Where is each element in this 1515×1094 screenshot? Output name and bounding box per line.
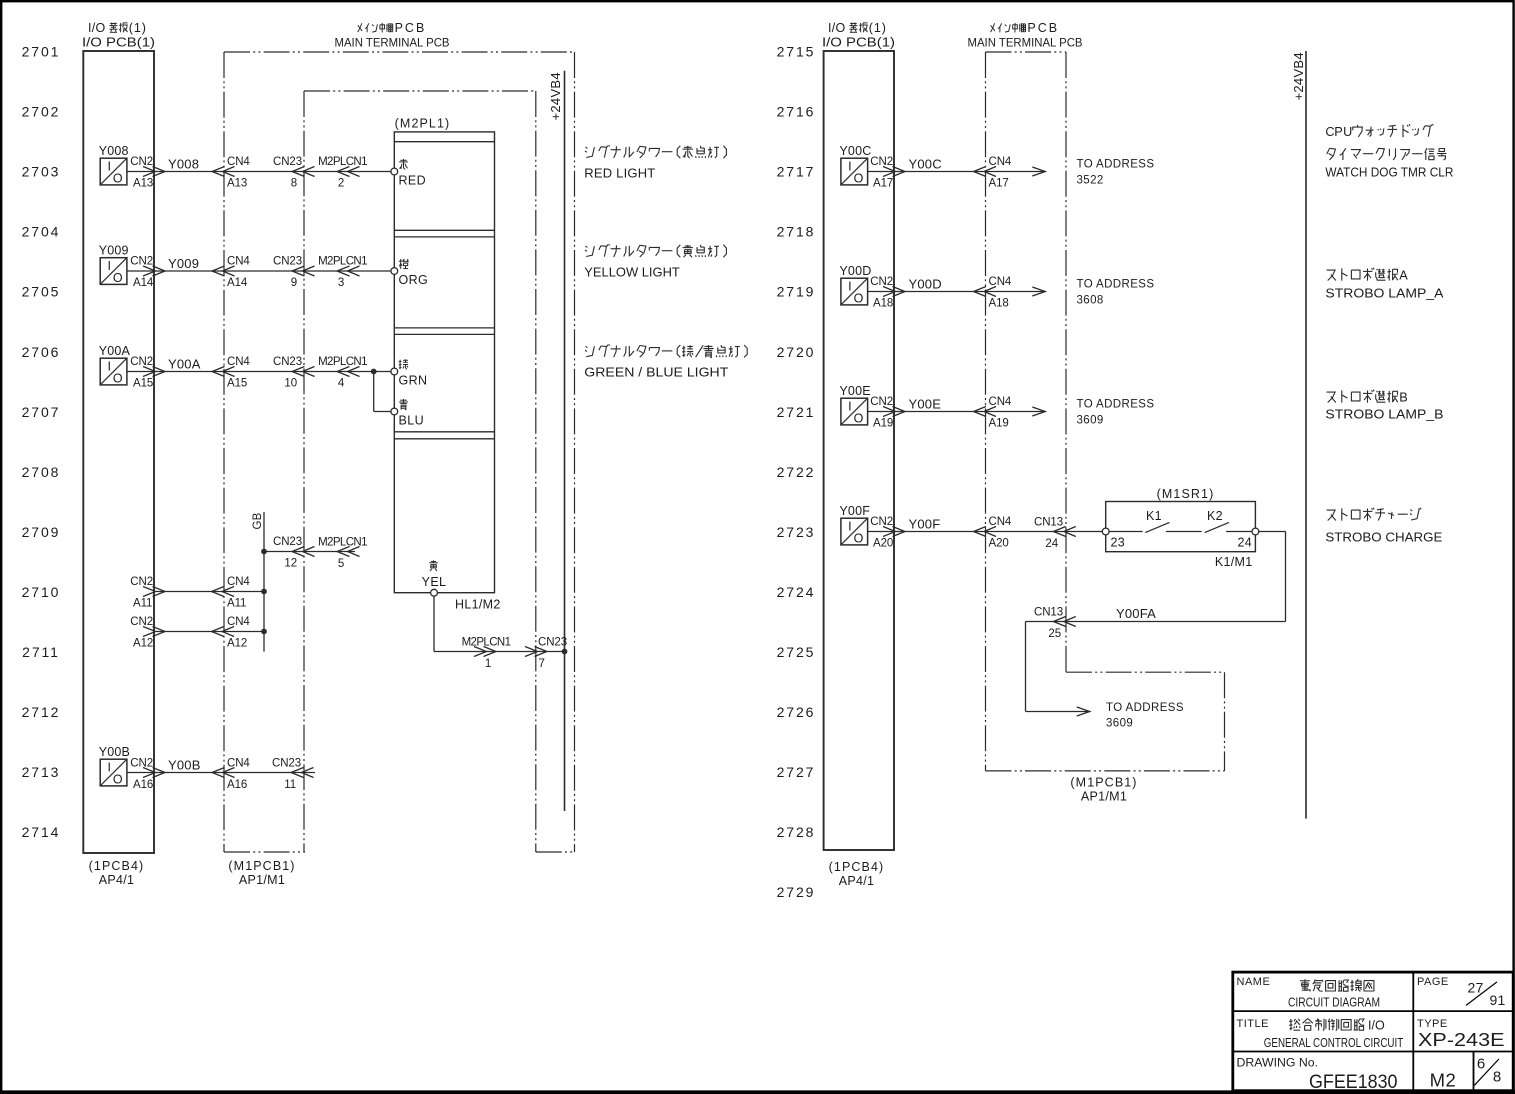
- svg-text:9: 9: [291, 277, 297, 289]
- svg-text:CN2: CN2: [130, 356, 153, 368]
- svg-text:CN4: CN4: [989, 396, 1012, 408]
- svg-text:YEL: YEL: [422, 575, 447, 589]
- svg-text:Y00C: Y00C: [909, 157, 942, 172]
- svg-text:DRAWING No.: DRAWING No.: [1237, 1058, 1319, 1070]
- svg-text:GB: GB: [252, 512, 264, 529]
- svg-text:6: 6: [1477, 1056, 1485, 1073]
- svg-text:A15: A15: [227, 378, 247, 390]
- svg-text:O: O: [113, 372, 123, 386]
- svg-text:11: 11: [284, 779, 296, 791]
- label I/O基板(1) right: [828, 21, 887, 35]
- title block TYPE cell: [1417, 1018, 1505, 1050]
- label 青 BLU: [399, 399, 425, 427]
- svg-text:K1/M1: K1/M1: [1215, 555, 1253, 569]
- connector CN2 pin A15 (Y00A): [130, 356, 165, 390]
- connector CN2 pin A14 (Y009): [130, 256, 165, 290]
- svg-text:2726: 2726: [777, 704, 816, 720]
- connector CN23 pin 12 (GB): [273, 536, 315, 570]
- I/O driver Y00E: [841, 398, 868, 426]
- svg-text:(1PCB4): (1PCB4): [89, 859, 145, 873]
- svg-text:A20: A20: [989, 538, 1009, 550]
- title block sheet 6/8 cell: [1474, 1056, 1501, 1086]
- svg-text:2708: 2708: [22, 464, 61, 480]
- wire between K1 and K2: [1166, 531, 1202, 533]
- svg-text:2717: 2717: [777, 164, 816, 180]
- wire Y00C row: [868, 171, 1046, 173]
- label TO ADDRESS 3608: [1077, 279, 1155, 307]
- svg-text:12: 12: [284, 558, 297, 570]
- connector CN2 pin A13 (Y008): [130, 156, 165, 190]
- svg-text:3608: 3608: [1077, 295, 1104, 307]
- svg-text:CN4: CN4: [227, 758, 250, 770]
- I/O PCB (1) board box AP4/1 right: [824, 51, 894, 850]
- svg-text:CN4: CN4: [227, 256, 250, 268]
- connector CN4 pin A20 (Y00F): [974, 516, 1012, 550]
- svg-text:I: I: [107, 359, 110, 373]
- svg-text:2712: 2712: [22, 704, 61, 720]
- connector CN4 pin A14 (Y009): [212, 256, 250, 290]
- svg-text:2703: 2703: [22, 164, 61, 180]
- svg-text:2706: 2706: [22, 344, 61, 360]
- svg-text:MAIN TERMINAL PCB: MAIN TERMINAL PCB: [968, 37, 1083, 49]
- connector CN4 pin A11: [212, 576, 251, 610]
- connector CN23 pin 7 (YEL): [525, 637, 567, 670]
- svg-text:XP-243E: XP-243E: [1418, 1030, 1505, 1050]
- label TO ADDRESS 3609: [1077, 399, 1155, 427]
- node GRN branch junction: [371, 369, 377, 375]
- svg-text:Y00B: Y00B: [99, 745, 130, 759]
- svg-text:GFEE1830: GFEE1830: [1309, 1072, 1398, 1093]
- svg-text:2728: 2728: [777, 824, 816, 840]
- svg-text:A18: A18: [873, 298, 893, 310]
- svg-text:WATCH DOG TMR CLR: WATCH DOG TMR CLR: [1325, 165, 1453, 180]
- svg-text:3: 3: [338, 277, 344, 289]
- title block DRAWING No. cell: [1237, 1058, 1398, 1094]
- svg-text:2709: 2709: [22, 524, 61, 540]
- connector CN4 pin A19 (Y00E): [974, 396, 1012, 430]
- svg-text:CN23: CN23: [272, 758, 301, 770]
- svg-text:Y00A: Y00A: [99, 344, 131, 358]
- svg-text:24: 24: [1045, 538, 1058, 550]
- title block frame: [1233, 972, 1513, 1091]
- description シグナルタワー(緑/青点灯) GREEN / BLUE LIGHT: [584, 344, 747, 379]
- svg-text:I/O: I/O: [1368, 1019, 1385, 1033]
- svg-text:U: U: [1343, 125, 1352, 139]
- svg-text:CN23: CN23: [273, 356, 302, 368]
- svg-text:2721: 2721: [777, 404, 816, 420]
- svg-text:A17: A17: [989, 178, 1009, 190]
- svg-text:TO ADDRESS: TO ADDRESS: [1077, 279, 1155, 291]
- svg-text:A20: A20: [873, 538, 893, 550]
- svg-text:2725: 2725: [777, 644, 816, 660]
- svg-text:YELLOW LIGHT: YELLOW LIGHT: [584, 264, 680, 279]
- I/O driver Y00C: [841, 158, 868, 186]
- label I/O基板(1) left: [88, 21, 147, 35]
- svg-text:AP1/M1: AP1/M1: [239, 873, 285, 887]
- GB bus stub line: [263, 512, 265, 652]
- description strobe select B: [1325, 390, 1443, 422]
- svg-text:M2PLCN1: M2PLCN1: [318, 256, 367, 268]
- svg-text:RED: RED: [399, 173, 427, 187]
- svg-text:AP4/1: AP4/1: [99, 873, 135, 887]
- svg-text:27: 27: [1468, 980, 1484, 996]
- description strobe select A: [1325, 268, 1443, 301]
- connector CN23 pin 10 (Y00A): [273, 356, 315, 390]
- svg-text:7: 7: [539, 658, 545, 670]
- node GB / CN23-12 junction: [261, 549, 267, 555]
- svg-text:P: P: [1334, 125, 1342, 139]
- svg-text:2724: 2724: [777, 584, 816, 600]
- svg-text:CN2: CN2: [870, 396, 893, 408]
- I/O driver Y009: [100, 258, 127, 286]
- lamp terminal ORG: [391, 268, 398, 275]
- svg-text:Y00E: Y00E: [909, 397, 942, 412]
- svg-text:2720: 2720: [777, 344, 816, 360]
- svg-text:CN23: CN23: [273, 256, 302, 268]
- svg-text:2714: 2714: [22, 824, 61, 840]
- svg-text:A13: A13: [227, 178, 247, 190]
- wire YEL to +24VB4 rail: [434, 596, 565, 651]
- svg-text:AP4/1: AP4/1: [839, 874, 875, 888]
- svg-text:2701: 2701: [22, 44, 61, 60]
- svg-text:Y00E: Y00E: [839, 384, 870, 398]
- wire Y00B row: [127, 772, 315, 774]
- connector CN2 pin A18 (Y00D): [870, 276, 905, 310]
- svg-text:I: I: [848, 159, 851, 173]
- svg-text:O: O: [113, 773, 123, 787]
- svg-text:2715: 2715: [777, 44, 816, 60]
- +24VB4 power rail left: [564, 71, 566, 811]
- svg-text:2718: 2718: [777, 224, 816, 240]
- svg-text:BLU: BLU: [399, 413, 425, 427]
- svg-text:I: I: [107, 259, 110, 273]
- connector CN4 pin A16 (Y00B): [212, 758, 250, 791]
- svg-text:I: I: [107, 760, 110, 774]
- svg-text:Y00D: Y00D: [909, 277, 942, 292]
- wire Y00D row: [868, 291, 1046, 293]
- I/O driver Y00B: [100, 759, 127, 787]
- wire CN2 A11 to GB bus: [154, 591, 264, 593]
- svg-text:PAGE: PAGE: [1417, 976, 1449, 988]
- svg-text:CN4: CN4: [989, 156, 1012, 168]
- label TO ADDRESS 3609 (Y00FA): [1106, 702, 1184, 730]
- svg-text:CN23: CN23: [538, 637, 567, 649]
- svg-text:A14: A14: [227, 277, 248, 289]
- svg-text:(1): (1): [129, 21, 147, 35]
- svg-text:1: 1: [485, 658, 491, 670]
- I/O driver Y008: [100, 158, 127, 186]
- M1PCB1 left inner cutout dash-dot boundary: [304, 91, 536, 852]
- title block NAME cell: [1237, 976, 1381, 1010]
- connector M2PLCN1 pin 3 (Y009): [318, 256, 367, 290]
- svg-text:CN2: CN2: [870, 516, 893, 528]
- svg-text:3609: 3609: [1077, 415, 1104, 427]
- wire Y00A row: [127, 371, 391, 373]
- wire CN2 A12 to GB bus: [154, 631, 264, 633]
- svg-text:O: O: [854, 532, 864, 546]
- svg-text:PCB: PCB: [1027, 21, 1059, 35]
- svg-text:2722: 2722: [777, 464, 816, 480]
- svg-text:K2: K2: [1207, 509, 1223, 523]
- svg-text:AP1/M1: AP1/M1: [1081, 790, 1127, 804]
- wire Y00F row: [868, 531, 1103, 533]
- strobe relay unit M1SR1 box: [1106, 502, 1256, 552]
- svg-text:C: C: [1325, 125, 1334, 139]
- connector CN2 pin A19 (Y00E): [870, 396, 905, 430]
- svg-text:CIRCUIT DIAGRAM: CIRCUIT DIAGRAM: [1288, 996, 1380, 1010]
- svg-text:3609: 3609: [1106, 717, 1133, 729]
- svg-text:(M1PCB1): (M1PCB1): [228, 859, 295, 873]
- svg-text:I: I: [107, 159, 110, 173]
- svg-text:2713: 2713: [22, 764, 61, 780]
- svg-text:Y00F: Y00F: [839, 504, 870, 518]
- svg-text:CN2: CN2: [130, 758, 153, 770]
- label メイン中継PCB right: [991, 21, 1060, 35]
- connector CN4 pin A13 (Y008): [212, 156, 250, 190]
- connector CN4 pin A17 (Y00C): [974, 156, 1012, 190]
- wire Y009 row: [127, 270, 391, 272]
- svg-text:CN2: CN2: [870, 156, 893, 168]
- svg-text:CN2: CN2: [130, 576, 153, 588]
- label メイン中継PCB left: [358, 21, 427, 35]
- svg-text:M2PLCN1: M2PLCN1: [462, 637, 511, 649]
- description CPU watchdog: [1325, 124, 1453, 180]
- svg-text:GENERAL CONTROL CIRCUIT: GENERAL CONTROL CIRCUIT: [1264, 1036, 1404, 1050]
- svg-text:I/O: I/O: [828, 21, 846, 35]
- description シグナルタワー(赤点灯) RED LIGHT: [584, 145, 726, 180]
- svg-text:+24VB4: +24VB4: [548, 72, 563, 120]
- svg-text:CN13: CN13: [1034, 517, 1063, 529]
- right rung numbers 2715-2729: [777, 44, 816, 901]
- svg-text:91: 91: [1490, 992, 1506, 1008]
- svg-text:O: O: [113, 172, 123, 186]
- wire Y008 row: [127, 171, 391, 173]
- svg-text:GRN: GRN: [399, 373, 428, 387]
- wire Y00FA from terminal 24: [1026, 532, 1286, 712]
- svg-text:10: 10: [284, 378, 297, 390]
- svg-text:(M1PCB1): (M1PCB1): [1070, 776, 1137, 790]
- svg-text:Y00C: Y00C: [839, 144, 871, 158]
- arrow to address (Y00D): [1032, 287, 1045, 296]
- svg-text:MAIN TERMINAL PCB: MAIN TERMINAL PCB: [335, 37, 450, 49]
- svg-text:I/O PCB(1): I/O PCB(1): [822, 35, 895, 49]
- svg-text:O: O: [854, 172, 864, 186]
- signal tower lamp unit M2PL1 box HL1/M2: [394, 132, 494, 593]
- svg-text:CN2: CN2: [130, 156, 153, 168]
- node GB bus junction A12: [261, 629, 267, 635]
- relay contact K1: [1109, 522, 1169, 532]
- title block TITLE cell: [1237, 1018, 1404, 1050]
- terminal 24 (M1SR1): [1252, 528, 1259, 535]
- svg-text:TYPE: TYPE: [1417, 1018, 1448, 1030]
- svg-text:M2PLCN1: M2PLCN1: [318, 537, 367, 549]
- svg-text:A19: A19: [989, 418, 1009, 430]
- svg-text:Y008: Y008: [99, 144, 129, 158]
- svg-text:A: A: [1399, 268, 1408, 282]
- lamp terminal YEL: [431, 589, 438, 596]
- connector CN23 pin 11 (Y00B): [272, 758, 314, 791]
- svg-text:2707: 2707: [22, 404, 61, 420]
- svg-text:RED LIGHT: RED LIGHT: [584, 165, 655, 180]
- connector M2PLCN1 pin 2 (Y008): [318, 156, 367, 190]
- svg-text:ORG: ORG: [399, 273, 429, 287]
- arrow to address (Y00E): [1032, 407, 1045, 416]
- svg-text:TO ADDRESS: TO ADDRESS: [1077, 399, 1155, 411]
- connector M2PLCN1 pin 1 (YEL): [462, 637, 511, 670]
- svg-text:I: I: [848, 279, 851, 293]
- svg-text:O: O: [113, 271, 123, 285]
- svg-text:24: 24: [1237, 535, 1252, 549]
- svg-text:TITLE: TITLE: [1237, 1018, 1269, 1030]
- arrow to address (Y00FA): [1077, 707, 1090, 716]
- svg-text:2711: 2711: [22, 644, 60, 660]
- svg-text:2723: 2723: [777, 524, 816, 540]
- svg-text:A13: A13: [133, 178, 153, 190]
- svg-text:CN2: CN2: [870, 276, 893, 288]
- svg-text:2710: 2710: [22, 584, 61, 600]
- connector M2PLCN1 pin 4 (Y00A): [318, 356, 367, 390]
- left rung numbers 2701-2714: [22, 44, 61, 841]
- svg-text:2704: 2704: [22, 224, 61, 240]
- svg-text:TO ADDRESS: TO ADDRESS: [1106, 702, 1184, 714]
- svg-text:A16: A16: [133, 779, 153, 791]
- connector CN13 pin 25 (Y00FA): [1034, 607, 1076, 640]
- svg-text:M2PLCN1: M2PLCN1: [318, 356, 367, 368]
- label TO ADDRESS 3522: [1077, 159, 1155, 187]
- svg-text:23: 23: [1111, 535, 1126, 549]
- MAIN TERMINAL PCB dash-dot boundary M1PCB1 right: [986, 52, 1225, 771]
- svg-text:A14: A14: [133, 277, 154, 289]
- svg-text:+24VB4: +24VB4: [1291, 52, 1306, 100]
- svg-text:Y00B: Y00B: [168, 758, 201, 773]
- svg-text:A17: A17: [873, 178, 893, 190]
- svg-text:STROBO CHARGE: STROBO CHARGE: [1325, 529, 1442, 544]
- svg-text:8: 8: [1493, 1069, 1501, 1086]
- svg-text:Y00A: Y00A: [168, 357, 201, 372]
- svg-text:A11: A11: [227, 598, 246, 610]
- svg-text:5: 5: [338, 558, 344, 570]
- svg-text:Y009: Y009: [168, 256, 199, 271]
- svg-text:A15: A15: [133, 378, 153, 390]
- wire GB to CN23 pin 12: [264, 551, 355, 553]
- node GB bus junction A11: [261, 589, 267, 595]
- connector CN4 pin A15 (Y00A): [212, 356, 250, 390]
- connector M2PLCN1 pin 5 (GB): [318, 537, 367, 570]
- svg-text:2716: 2716: [777, 104, 816, 120]
- svg-text:Y009: Y009: [99, 244, 129, 258]
- MAIN TERMINAL PCB dash-dot boundary M1PCB1 left outer: [224, 52, 575, 852]
- arrow to address (Y00C): [1032, 167, 1045, 176]
- wire K2 to terminal 24: [1226, 531, 1252, 533]
- relay contact K2: [1205, 522, 1229, 532]
- svg-text:8: 8: [291, 178, 297, 190]
- svg-text:2729: 2729: [777, 884, 816, 900]
- svg-text:CN13: CN13: [1034, 607, 1063, 619]
- svg-text:Y00D: Y00D: [839, 264, 871, 278]
- svg-text:PCB: PCB: [395, 21, 427, 35]
- wire GRN to BLU branch: [374, 372, 391, 412]
- svg-text:CN4: CN4: [989, 276, 1012, 288]
- svg-text:NAME: NAME: [1237, 976, 1271, 988]
- svg-text:HL1/M2: HL1/M2: [455, 598, 501, 612]
- connector CN4 pin A12: [212, 616, 251, 650]
- I/O driver Y00A: [100, 358, 127, 386]
- connector CN2 pin A11: [130, 576, 165, 610]
- label 緑 GRN: [399, 359, 428, 387]
- svg-text:CN4: CN4: [227, 356, 250, 368]
- svg-text:CN2: CN2: [130, 616, 153, 628]
- svg-text:(M2PL1): (M2PL1): [395, 117, 451, 131]
- svg-text:(M1SR1): (M1SR1): [1157, 487, 1215, 501]
- svg-text:CN4: CN4: [227, 156, 250, 168]
- svg-text:Y00FA: Y00FA: [1116, 606, 1156, 621]
- lamp terminal BLU: [391, 408, 398, 415]
- svg-text:25: 25: [1048, 628, 1061, 640]
- label 黄 YEL: [422, 560, 447, 588]
- wire Y00E row: [868, 411, 1046, 413]
- svg-text:Y00F: Y00F: [909, 517, 941, 532]
- label 赤 RED: [399, 159, 427, 187]
- svg-text:CN23: CN23: [273, 536, 302, 548]
- svg-text:2727: 2727: [777, 764, 816, 780]
- lamp terminal GRN: [391, 368, 398, 375]
- svg-text:A18: A18: [989, 298, 1009, 310]
- svg-text:A12: A12: [227, 638, 247, 650]
- connector CN2 pin A17 (Y00C): [870, 156, 905, 190]
- svg-text:Y008: Y008: [168, 157, 199, 172]
- svg-text:M2: M2: [1430, 1070, 1457, 1091]
- svg-text:CN4: CN4: [227, 576, 250, 588]
- connector CN2 pin A16 (Y00B): [130, 758, 165, 791]
- connector CN23 pin 8 (Y008): [273, 156, 315, 190]
- description シグナルタワー(黄点灯) YELLOW LIGHT: [584, 244, 726, 279]
- svg-text:A16: A16: [227, 779, 247, 791]
- connector CN13 pin 24 (Y00F): [1034, 517, 1076, 550]
- svg-text:TO ADDRESS: TO ADDRESS: [1077, 159, 1155, 171]
- svg-text:4: 4: [338, 378, 345, 390]
- +24VB4 power rail right: [1305, 51, 1307, 819]
- I/O driver Y00F: [841, 518, 868, 546]
- connector CN2 pin A12: [130, 616, 165, 650]
- svg-text:I: I: [848, 519, 851, 533]
- connector CN4 pin A18 (Y00D): [974, 276, 1012, 310]
- svg-text:2702: 2702: [22, 104, 61, 120]
- svg-text:CN4: CN4: [989, 516, 1012, 528]
- svg-text:(1): (1): [869, 21, 887, 35]
- svg-text:GREEN / BLUE LIGHT: GREEN / BLUE LIGHT: [584, 365, 728, 380]
- svg-text:I: I: [848, 399, 851, 413]
- svg-text:3522: 3522: [1077, 175, 1104, 187]
- I/O driver Y00D: [841, 278, 868, 306]
- svg-text:CN4: CN4: [227, 616, 250, 628]
- connector CN23 pin 9 (Y009): [273, 256, 315, 290]
- svg-text:CN23: CN23: [273, 156, 302, 168]
- terminal 23 (M1SR1): [1102, 528, 1109, 535]
- svg-text:I/O: I/O: [88, 21, 106, 35]
- svg-text:M2PLCN1: M2PLCN1: [318, 156, 367, 168]
- svg-text:O: O: [854, 292, 864, 306]
- svg-text:A19: A19: [873, 418, 893, 430]
- svg-text:2: 2: [338, 178, 344, 190]
- svg-text:I/O PCB(1): I/O PCB(1): [82, 35, 155, 49]
- svg-text:B: B: [1399, 390, 1407, 404]
- svg-text:A11: A11: [133, 598, 152, 610]
- svg-text:(1PCB4): (1PCB4): [829, 860, 885, 874]
- svg-text:STROBO LAMP_B: STROBO LAMP_B: [1325, 406, 1443, 421]
- description strobe charge: [1325, 508, 1442, 545]
- svg-text:2719: 2719: [777, 284, 816, 300]
- svg-text:K1: K1: [1146, 509, 1162, 523]
